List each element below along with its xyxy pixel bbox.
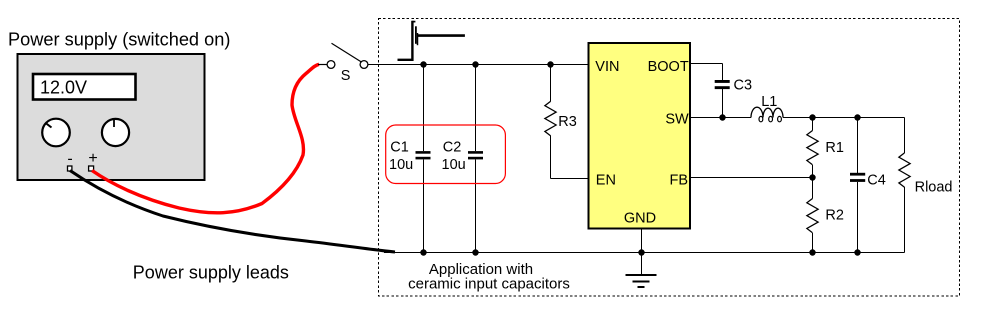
svg-text:FB: FB <box>669 173 688 189</box>
svg-text:+: + <box>88 150 97 167</box>
svg-text:10u: 10u <box>442 157 466 173</box>
svg-text:12.0V: 12.0V <box>40 78 87 98</box>
svg-text:R1: R1 <box>825 140 844 156</box>
svg-text:S: S <box>341 68 351 84</box>
svg-text:Rload: Rload <box>915 179 953 195</box>
svg-text:Power supply leads: Power supply leads <box>133 263 289 283</box>
svg-text:GND: GND <box>624 210 656 226</box>
svg-text:R2: R2 <box>825 208 844 224</box>
svg-text:-: - <box>67 151 72 168</box>
svg-text:ceramic input capacitors: ceramic input capacitors <box>408 275 570 292</box>
svg-text:C2: C2 <box>443 140 462 156</box>
svg-text:Power supply (switched on): Power supply (switched on) <box>8 30 230 50</box>
svg-text:C3: C3 <box>734 78 753 94</box>
svg-text:R3: R3 <box>558 114 577 130</box>
svg-text:EN: EN <box>596 173 616 189</box>
svg-text:10u: 10u <box>389 157 413 173</box>
svg-text:BOOT: BOOT <box>648 59 689 75</box>
svg-text:SW: SW <box>665 112 689 128</box>
svg-text:C1: C1 <box>390 140 409 156</box>
svg-text:C4: C4 <box>867 173 886 189</box>
svg-text:L1: L1 <box>761 94 777 110</box>
svg-text:VIN: VIN <box>595 59 619 75</box>
